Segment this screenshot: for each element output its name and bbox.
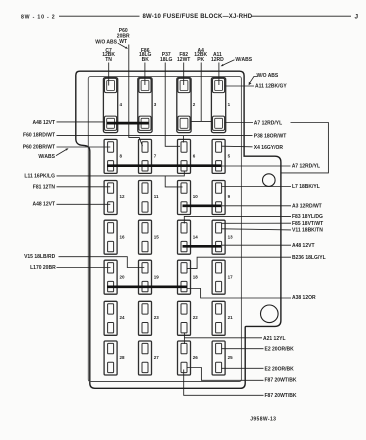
label A3 12RD/WT — [292, 203, 322, 209]
fuse cavity 17 — [212, 260, 225, 294]
wire L11 into junction — [57, 175, 166, 177]
label W/ABS (top right) — [235, 57, 252, 63]
wire P37 to fuse6 — [165, 63, 180, 147]
svg-text:A48 12VT: A48 12VT — [32, 202, 55, 208]
svg-text:L11 16PK/LG: L11 16PK/LG — [24, 174, 55, 180]
svg-text:L7 18BK/YL: L7 18BK/YL — [292, 184, 320, 190]
wire long F60 to P38 — [57, 135, 253, 137]
wire A7 loop right — [281, 123, 328, 173]
cavity number 26 — [193, 355, 199, 360]
label A11 12BK/GY — [255, 84, 287, 90]
fuse cavity 11 — [139, 181, 152, 215]
svg-text:28: 28 — [120, 355, 126, 360]
fuse cavity 6 — [178, 139, 191, 173]
label F85 18VT/WT — [292, 221, 323, 227]
svg-text:11: 11 — [154, 194, 159, 199]
label V15 18LB/RD — [24, 254, 56, 260]
cavity number 27 — [154, 355, 160, 360]
cavity number 12 — [120, 194, 126, 199]
svg-text:8W - 10 - 2: 8W - 10 - 2 — [21, 14, 55, 20]
svg-text:10: 10 — [193, 194, 199, 199]
svg-text:E2 20OR/BK: E2 20OR/BK — [265, 366, 295, 372]
cavity number 28 — [120, 355, 126, 360]
cavity number 13 — [228, 235, 234, 240]
svg-text:12: 12 — [120, 194, 126, 199]
fuse cavity 4 (row1) — [103, 78, 117, 133]
fuse cavity 18 — [178, 260, 191, 294]
svg-text:TN: TN — [105, 57, 112, 63]
wire tie fuse2-fuse1 bottom — [191, 120, 212, 122]
label A48 12VT (right) — [292, 243, 315, 249]
fuse block inner frame — [88, 77, 241, 382]
svg-text:BK: BK — [142, 57, 150, 63]
label A38 12OR — [292, 295, 316, 301]
fuse cavity 22 — [178, 301, 191, 335]
label E2 20OR/BK (second) — [265, 366, 295, 372]
cavity number 5 — [228, 154, 231, 159]
svg-text:14: 14 — [193, 235, 199, 240]
mounting hole upper — [263, 174, 276, 187]
wire to A21 label — [184, 337, 262, 339]
label L7 18BK/YL — [292, 184, 320, 190]
label P60 20BR/WT (left) — [23, 145, 55, 151]
svg-text:A3 12RD/WT: A3 12RD/WT — [292, 203, 322, 209]
wire fuse26 bottom to F87 second — [184, 370, 264, 396]
fuse cavity 28 — [104, 341, 117, 375]
svg-text:J958W-13: J958W-13 — [250, 416, 276, 422]
fuse cavity 9 — [212, 181, 225, 215]
svg-text:B236 18LG/YL: B236 18LG/YL — [292, 255, 326, 261]
svg-text:13: 13 — [228, 235, 234, 240]
wire P60 W/ABS to fuse8 top — [57, 146, 111, 148]
cavity number 18 — [193, 275, 199, 280]
cavity number 3 — [154, 102, 157, 107]
fuse cavity 23 — [139, 301, 152, 335]
fuse cavity 16 — [104, 220, 117, 254]
label A21 12YL — [263, 336, 286, 342]
label A7 12RD/YL (first) — [254, 120, 282, 126]
fuse cavity 8 — [104, 139, 117, 173]
wire fuse9 top to L7 — [221, 186, 291, 188]
fuse cavity 15 — [139, 220, 152, 254]
svg-text:15: 15 — [154, 235, 160, 240]
cavity number 16 — [120, 235, 126, 240]
svg-text:12WT: 12WT — [177, 57, 190, 63]
svg-text:A38 12OR: A38 12OR — [292, 295, 316, 301]
fuse cavity 27 — [139, 341, 152, 375]
svg-text:26: 26 — [193, 355, 199, 360]
label F81 12TN — [33, 184, 56, 190]
label F60 18RD/WT — [23, 133, 55, 139]
label W/ABS (left) — [38, 154, 55, 160]
fuse cavity 20 — [104, 260, 117, 294]
wire fuse5 bottom bus to A7 second label — [221, 165, 291, 167]
bus bar fuse14-13 bottom — [183, 245, 222, 248]
label A7 12RD/YL (second) — [292, 163, 320, 169]
wire fuse5 top to X4 — [222, 145, 253, 148]
label P37 18LG — [160, 52, 173, 63]
svg-text:19: 19 — [154, 275, 160, 280]
svg-text:L170 20BR: L170 20BR — [30, 265, 56, 271]
svg-text:W/O ABS: W/O ABS — [257, 73, 279, 79]
label X4 16GY/OR — [254, 145, 284, 151]
label L170 20BR — [30, 265, 56, 271]
svg-text:W/ABS: W/ABS — [235, 57, 252, 63]
wire fuse18 top to B236 — [187, 257, 291, 268]
wire fuse13 bottom to A48 right — [221, 244, 291, 246]
svg-text:J: J — [355, 14, 359, 21]
wire C7 to fuse4 — [108, 63, 110, 86]
label A48 12VT (left lower) — [32, 202, 55, 208]
wire A4 to fuse2/1 bottom tie — [200, 63, 202, 122]
svg-text:25: 25 — [228, 355, 234, 360]
svg-text:20: 20 — [120, 275, 126, 280]
bus bar fuse4-fuse3 bottom — [107, 122, 149, 125]
wire stub to fuse6 top — [182, 136, 184, 143]
bus bar fuse20-18 bottom — [107, 285, 187, 288]
label E2 20OR/BK (first) — [265, 346, 295, 352]
wire A48 to fuse4 bottom — [57, 121, 105, 123]
fuse cavity 19 — [139, 260, 152, 294]
svg-text:F60 18RD/WT: F60 18RD/WT — [23, 133, 55, 139]
svg-text:8W-10 FUSE/FUSE BLOCK—XJ-RHD: 8W-10 FUSE/FUSE BLOCK—XJ-RHD — [143, 14, 253, 20]
svg-text:12RD: 12RD — [211, 57, 224, 63]
cavity number 24 — [120, 315, 126, 320]
cavity number 20 — [120, 275, 126, 280]
svg-text:A21 12YL: A21 12YL — [263, 336, 286, 342]
label F82 12WT — [177, 52, 190, 63]
svg-text:17: 17 — [228, 275, 234, 280]
header rule left — [59, 15, 140, 17]
wire fuse18 bottom to A38 — [187, 289, 291, 299]
svg-text:21: 21 — [228, 315, 234, 320]
svg-text:F83 18YL/DG: F83 18YL/DG — [292, 214, 323, 220]
fuse cavity 1 (row1) — [211, 78, 225, 133]
svg-text:A7 12RD/YL: A7 12RD/YL — [292, 163, 320, 169]
label F83 18YL/DG — [292, 214, 323, 220]
svg-text:F85 18VT/WT: F85 18VT/WT — [292, 221, 323, 227]
fuse cavity 26 — [178, 341, 191, 375]
wire fuse13 top to V11 — [221, 229, 291, 230]
label V11 18BK/TN — [292, 227, 323, 233]
svg-text:F87 20WT/BK: F87 20WT/BK — [265, 393, 297, 399]
cavity number 6 — [193, 154, 196, 159]
figure number J958W-13 — [250, 416, 276, 422]
fuse cavity 10 — [178, 181, 191, 215]
arrow W/ABS to A11 wire — [221, 60, 235, 66]
svg-text:V15 18LB/RD: V15 18LB/RD — [24, 254, 56, 260]
wire fuse22 bottom to fuse26 top — [183, 333, 185, 344]
wire fuse25 bottom to E2 second — [221, 367, 263, 369]
svg-text:18: 18 — [193, 275, 199, 280]
page header title — [143, 14, 253, 20]
page header left text — [21, 14, 55, 20]
arrow W/O ABS to A11 BK/GY wire — [249, 76, 257, 85]
cavity number 9 — [228, 194, 231, 199]
wire fuse25 top to E2 first — [221, 348, 263, 350]
svg-text:W/ABS: W/ABS — [38, 154, 55, 160]
header rule right — [251, 15, 351, 17]
fuse cavity 14 — [178, 220, 191, 254]
svg-text:E2 20OR/BK: E2 20OR/BK — [265, 346, 295, 352]
svg-text:18LG: 18LG — [160, 57, 173, 63]
wire A48 to fuse12 bottom — [57, 203, 111, 205]
cavity number 11 — [154, 194, 159, 199]
wire fuse14 top to F83 — [184, 216, 291, 223]
svg-text:A48 12VT: A48 12VT — [292, 243, 315, 249]
wire F81 to fuse12 top — [57, 186, 111, 188]
fuse cavity 5 — [212, 139, 225, 173]
svg-text:23: 23 — [154, 315, 160, 320]
mounting hole lower — [261, 305, 279, 323]
label W/O ABS (top) — [95, 40, 117, 46]
cavity number 10 — [193, 194, 199, 199]
fuse cavity 24 — [104, 301, 117, 335]
svg-text:16: 16 — [120, 235, 126, 240]
svg-text:F81 12TN: F81 12TN — [33, 184, 56, 190]
svg-text:A48 12VT: A48 12VT — [32, 120, 55, 126]
arrow W/O ABS to P60 wire — [118, 43, 128, 49]
fuse cavity 7 — [139, 139, 152, 173]
svg-text:24: 24 — [120, 315, 126, 320]
fuse cavity 12 — [104, 181, 117, 215]
label F87 20WT/BK (first) — [265, 378, 297, 384]
cavity number 19 — [154, 275, 160, 280]
fuse cavity 3 (row1) — [138, 78, 152, 133]
wire F82 to fuse2 — [183, 63, 185, 86]
wire fuse1 bottom to A7 label — [225, 122, 253, 124]
cavity number 22 — [193, 315, 199, 320]
wire A11 to fuse1 — [218, 63, 220, 86]
fuse cavity 21 — [212, 301, 225, 335]
label F86 18LG BK — [139, 48, 152, 63]
wire fuse1 top to A11 12BK/GY — [225, 85, 254, 87]
svg-text:P60 20BR/WT: P60 20BR/WT — [23, 145, 55, 151]
svg-text:A11 12BK/GY: A11 12BK/GY — [255, 84, 287, 90]
label A11 12RD — [211, 52, 224, 63]
cavity number 14 — [193, 235, 199, 240]
wire fuse9 bottom to A3 — [221, 205, 291, 207]
cavity number 15 — [154, 235, 160, 240]
wire fuse13 top to F85 — [221, 222, 291, 224]
bus bar fuse10-9 bottom — [183, 204, 222, 207]
svg-text:P38 18OR/WT: P38 18OR/WT — [254, 133, 287, 139]
wire V15 to fuse19 top — [59, 257, 145, 268]
cavity number 8 — [120, 154, 123, 159]
label A4 12BK PK — [194, 48, 207, 63]
cavity number 23 — [154, 315, 160, 320]
wire P60 to fuse7 — [129, 45, 143, 147]
svg-text:V11 18BK/TN: V11 18BK/TN — [292, 227, 323, 233]
svg-text:27: 27 — [154, 355, 160, 360]
cavity number 4 — [120, 102, 123, 107]
label A48 12VT (left upper) — [32, 120, 55, 126]
svg-text:A7 12RD/YL: A7 12RD/YL — [254, 120, 282, 126]
page header right letter J — [355, 14, 359, 21]
label F87 20WT/BK (second) — [265, 393, 297, 399]
label B236 18LG/YL — [292, 255, 326, 261]
label C7 12BK TN — [102, 48, 115, 63]
label P38 18OR/WT — [254, 133, 287, 139]
svg-text:22: 22 — [193, 315, 199, 320]
wire fuse26 bottom to F87 first — [187, 368, 264, 381]
bus bar fuse8-5 bottom — [107, 164, 221, 167]
wire L170 to fuse20 top — [57, 267, 111, 269]
svg-text:WT: WT — [119, 39, 127, 45]
svg-text:F87 20WT/BK: F87 20WT/BK — [265, 378, 297, 384]
fuse cavity 13 — [212, 220, 225, 254]
fuse block outer outline — [76, 71, 281, 388]
cavity number 21 — [228, 315, 234, 320]
cavity number 1 — [228, 102, 231, 107]
cavity number 25 — [228, 355, 234, 360]
cavity number 17 — [228, 275, 234, 280]
cavity number 7 — [154, 154, 157, 159]
wire fuse6 bottom to fuse10 top — [165, 171, 184, 187]
svg-text:PK: PK — [197, 57, 204, 63]
svg-text:X4 16GY/OR: X4 16GY/OR — [254, 145, 284, 151]
fuse cavity 2 (row1) — [177, 78, 191, 133]
arrow W/ABS to P60 wire — [56, 148, 69, 155]
cavity number 2 — [193, 102, 196, 107]
svg-text:W/O ABS: W/O ABS — [95, 40, 117, 46]
label P60 20BR WT — [117, 28, 130, 45]
fuse cavity 25 — [212, 341, 225, 375]
label L11 16PK/LG — [24, 174, 55, 180]
label W/O ABS (right) — [257, 73, 279, 79]
wire F86 to fuse3 — [144, 63, 146, 86]
